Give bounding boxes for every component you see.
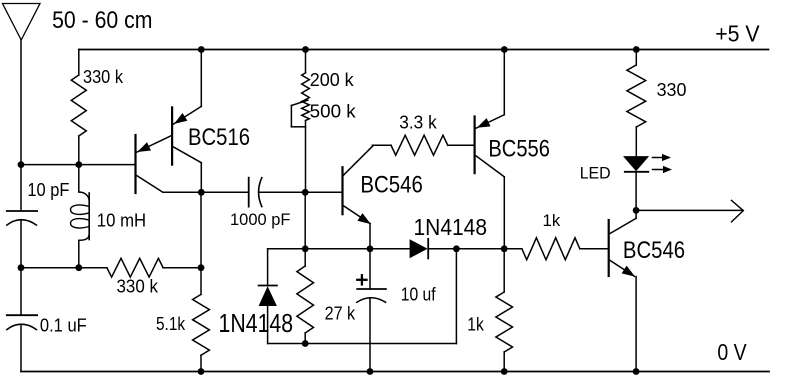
svg-text:1k: 1k (543, 211, 561, 230)
svg-text:50 - 60 cm: 50 - 60 cm (52, 7, 152, 34)
svg-text:330 k: 330 k (117, 276, 159, 296)
svg-text:0 V: 0 V (717, 339, 747, 365)
svg-text:BC546: BC546 (360, 172, 423, 199)
svg-text:5.1k: 5.1k (156, 314, 186, 334)
svg-text:200 k: 200 k (310, 70, 355, 90)
svg-text:0.1 uF: 0.1 uF (40, 314, 87, 335)
svg-text:1000 pF: 1000 pF (230, 210, 291, 229)
svg-text:BC546: BC546 (623, 237, 685, 264)
svg-text:BC556: BC556 (488, 135, 550, 162)
svg-text:1k: 1k (467, 314, 484, 334)
svg-text:10 uf: 10 uf (401, 285, 437, 305)
svg-text:10 pF: 10 pF (27, 180, 69, 200)
svg-text:10 mH: 10 mH (97, 211, 146, 231)
svg-text:1N4148: 1N4148 (414, 214, 488, 240)
svg-text:500 k: 500 k (310, 101, 357, 121)
svg-text:3.3 k: 3.3 k (399, 112, 437, 132)
svg-text:1N4148: 1N4148 (219, 310, 294, 338)
svg-text:330 k: 330 k (83, 67, 124, 87)
svg-text:27 k: 27 k (325, 303, 356, 323)
svg-text:+5 V: +5 V (715, 21, 760, 47)
svg-text:330: 330 (657, 80, 687, 100)
svg-text:BC516: BC516 (188, 124, 250, 151)
svg-text:LED: LED (580, 164, 611, 182)
